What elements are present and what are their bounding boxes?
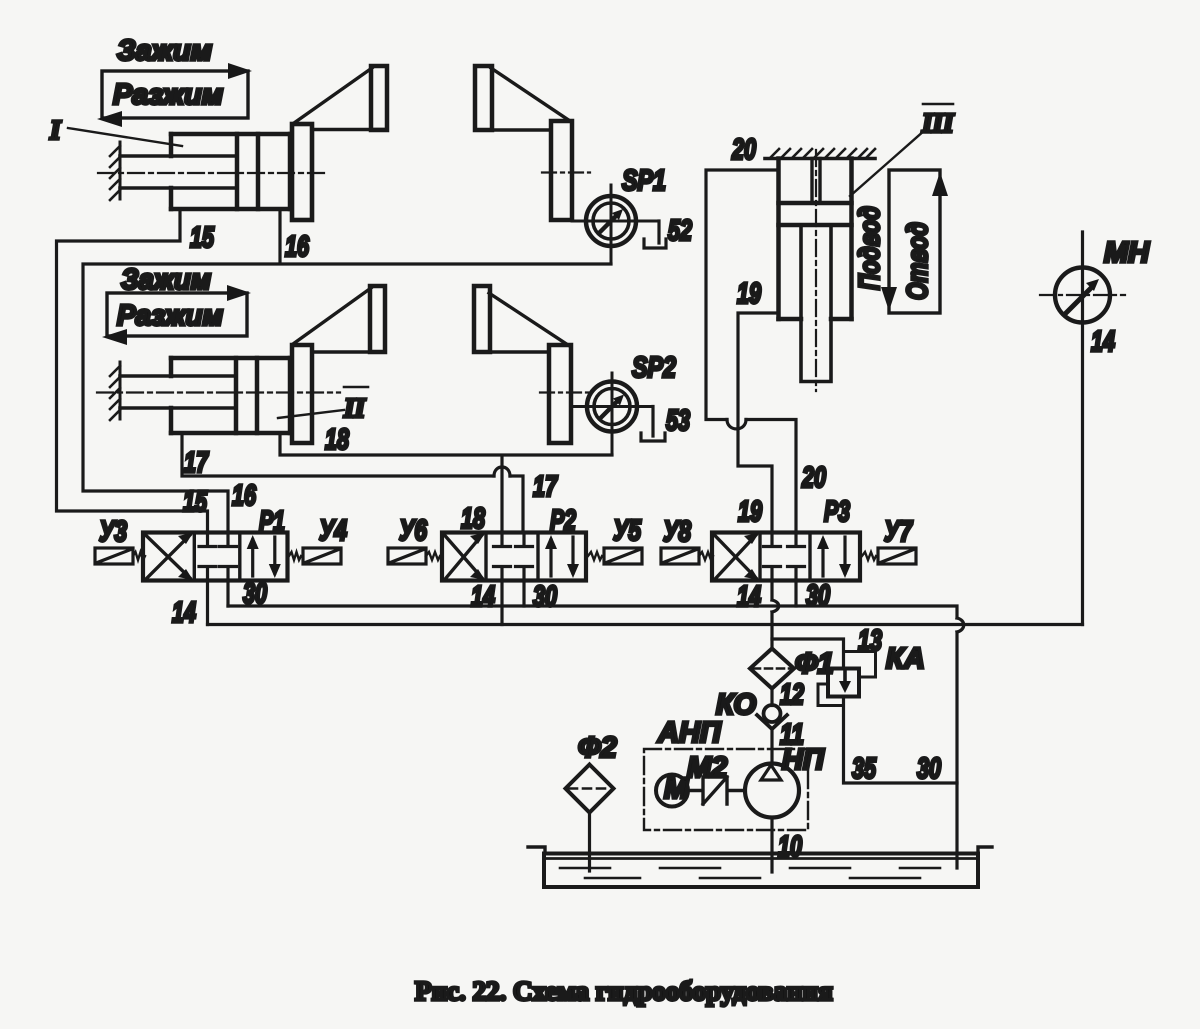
wire 15 route cylI to P1 xyxy=(57,209,208,533)
hop of bus 30 over bus 14 xyxy=(957,618,964,632)
svg-text:17: 17 xyxy=(533,471,558,503)
svg-text:У6: У6 xyxy=(399,515,428,547)
svg-text:13: 13 xyxy=(858,625,882,657)
wire 18 route cylII to P2 xyxy=(280,433,612,533)
svg-text:Разжим: Разжим xyxy=(117,300,223,332)
svg-text:Р1: Р1 xyxy=(259,506,285,538)
pressure switch SP1 xyxy=(572,185,659,264)
svg-text:15: 15 xyxy=(183,486,208,518)
cylinder III xyxy=(779,150,852,391)
coupling M2-НП xyxy=(688,777,745,804)
svg-text:III: III xyxy=(921,108,955,138)
wire 16 route cylI to P1 xyxy=(83,209,611,533)
filter Ф2 xyxy=(566,765,614,813)
svg-text:12: 12 xyxy=(780,679,804,711)
svg-text:20: 20 xyxy=(801,462,826,494)
svg-text:Ф2: Ф2 xyxy=(578,732,617,764)
supply-return arrow box (Подвод/Отвод) xyxy=(881,170,948,313)
leader line II xyxy=(278,410,344,418)
svg-text:У5: У5 xyxy=(613,515,642,547)
solenoid У5 xyxy=(588,548,642,564)
pump unit box АНП xyxy=(644,749,808,830)
connector cup 53 xyxy=(641,407,665,442)
svg-text:I: I xyxy=(49,115,62,145)
cylinder II xyxy=(97,358,340,433)
svg-text:35: 35 xyxy=(852,753,877,785)
svg-text:II: II xyxy=(343,393,367,423)
crosshead plate row2 right xyxy=(540,345,588,443)
svg-text:У8: У8 xyxy=(663,516,692,548)
crosshead plate row1 right xyxy=(542,121,590,220)
pressure switch SP2 xyxy=(571,373,653,455)
svg-text:Р3: Р3 xyxy=(824,496,850,528)
svg-text:Зажим: Зажим xyxy=(121,264,211,296)
svg-text:У3: У3 xyxy=(99,516,127,548)
wire 20 route cylIII to P3 xyxy=(706,170,796,533)
svg-text:17: 17 xyxy=(184,447,209,479)
valve P3 xyxy=(712,533,860,581)
solenoid У7 xyxy=(862,548,916,564)
svg-text:Отвод: Отвод xyxy=(902,222,934,300)
wire P2 bottom ports xyxy=(502,581,524,625)
check valve КО xyxy=(757,705,787,729)
valve P2 xyxy=(442,533,586,581)
svg-text:30: 30 xyxy=(917,753,941,785)
clamp lever row1 left xyxy=(294,66,387,130)
leader line I xyxy=(68,128,182,146)
solenoid У8 xyxy=(661,548,713,564)
clamp lever row2 right xyxy=(474,286,568,352)
svg-text:14: 14 xyxy=(1091,326,1115,358)
cylinder III ceiling mount xyxy=(765,149,875,159)
svg-text:Р2: Р2 xyxy=(550,505,576,537)
Ф2 pipe to tank xyxy=(588,813,591,872)
svg-text:18: 18 xyxy=(325,424,350,456)
svg-text:16: 16 xyxy=(232,480,257,512)
clamp lever row1 right xyxy=(475,66,570,130)
svg-text:КО: КО xyxy=(716,689,756,721)
svg-text:У4: У4 xyxy=(319,515,347,547)
wire 17 hop over 18 drop xyxy=(494,467,510,476)
svg-text:18: 18 xyxy=(461,503,486,535)
connector cup 52 xyxy=(644,221,666,248)
svg-text:НП: НП xyxy=(782,744,825,776)
svg-text:Подвод: Подвод xyxy=(854,206,886,290)
pump suction pipe 10 xyxy=(770,818,773,873)
filter Ф1 xyxy=(750,649,794,689)
wire Ф1 to KO xyxy=(770,689,773,706)
bus 30 (return line) xyxy=(228,606,957,868)
wire KO to pump xyxy=(770,729,773,764)
svg-text:Зажим: Зажим xyxy=(117,35,212,67)
tank xyxy=(528,847,992,887)
svg-text:14: 14 xyxy=(172,597,196,629)
wire P1 bottom ports xyxy=(208,581,229,625)
svg-text:М: М xyxy=(664,773,689,805)
cylinder I xyxy=(98,134,324,209)
clamp arrow box row2 xyxy=(102,285,251,345)
svg-text:16: 16 xyxy=(285,231,310,263)
svg-text:У7: У7 xyxy=(884,516,913,548)
leader line III xyxy=(850,130,925,196)
crosshead plate of cylinder II xyxy=(292,345,312,443)
svg-text:SP1: SP1 xyxy=(622,165,666,197)
crosshead plate of cylinder I xyxy=(292,124,312,220)
clamp arrow box row1 xyxy=(97,63,252,127)
wire P3 bottom-right port xyxy=(794,581,797,607)
svg-text:АНП: АНП xyxy=(657,717,722,749)
label II xyxy=(343,387,368,423)
svg-text:М2: М2 xyxy=(687,752,727,784)
valve P1 xyxy=(143,533,288,581)
wire 19 route cylIII to P3 xyxy=(738,313,779,533)
pump НП xyxy=(745,764,799,818)
svg-text:Рис. 22. Схема гидрооборудован: Рис. 22. Схема гидрооборудования xyxy=(415,976,833,1006)
wire P3 bottom-left port with hop over bus 30 xyxy=(770,581,773,649)
svg-text:14: 14 xyxy=(471,581,495,613)
wire 20 hop under 19 drop xyxy=(727,420,746,429)
solenoid У4 xyxy=(289,548,341,564)
label III xyxy=(921,104,955,138)
svg-text:14: 14 xyxy=(737,581,761,613)
electric motor M2 xyxy=(656,773,689,807)
svg-text:SP2: SP2 xyxy=(632,352,676,384)
svg-text:19: 19 xyxy=(737,278,761,310)
relief valve KA branch xyxy=(772,639,844,669)
wire 17 route cylII to P2 xyxy=(182,433,523,533)
svg-text:КА: КА xyxy=(886,643,925,675)
pilot line 13 of KA xyxy=(844,652,876,678)
svg-text:Разжим: Разжим xyxy=(113,79,223,111)
manometer MH xyxy=(1040,232,1125,625)
solenoid У3 xyxy=(95,548,145,564)
relief valve KA xyxy=(828,669,859,697)
svg-text:15: 15 xyxy=(190,222,215,254)
svg-text:52: 52 xyxy=(668,215,692,247)
svg-text:20: 20 xyxy=(731,134,756,166)
bus 14 (pressure line) xyxy=(208,623,1083,626)
svg-text:19: 19 xyxy=(738,496,762,528)
wire KA to drain 35 xyxy=(844,697,958,784)
pilot drain of KA xyxy=(818,684,844,706)
svg-text:МН: МН xyxy=(1104,237,1150,269)
clamp lever row2 left xyxy=(293,286,385,352)
svg-text:30: 30 xyxy=(533,581,557,613)
solenoid У6 xyxy=(388,548,440,564)
svg-text:53: 53 xyxy=(666,405,690,437)
